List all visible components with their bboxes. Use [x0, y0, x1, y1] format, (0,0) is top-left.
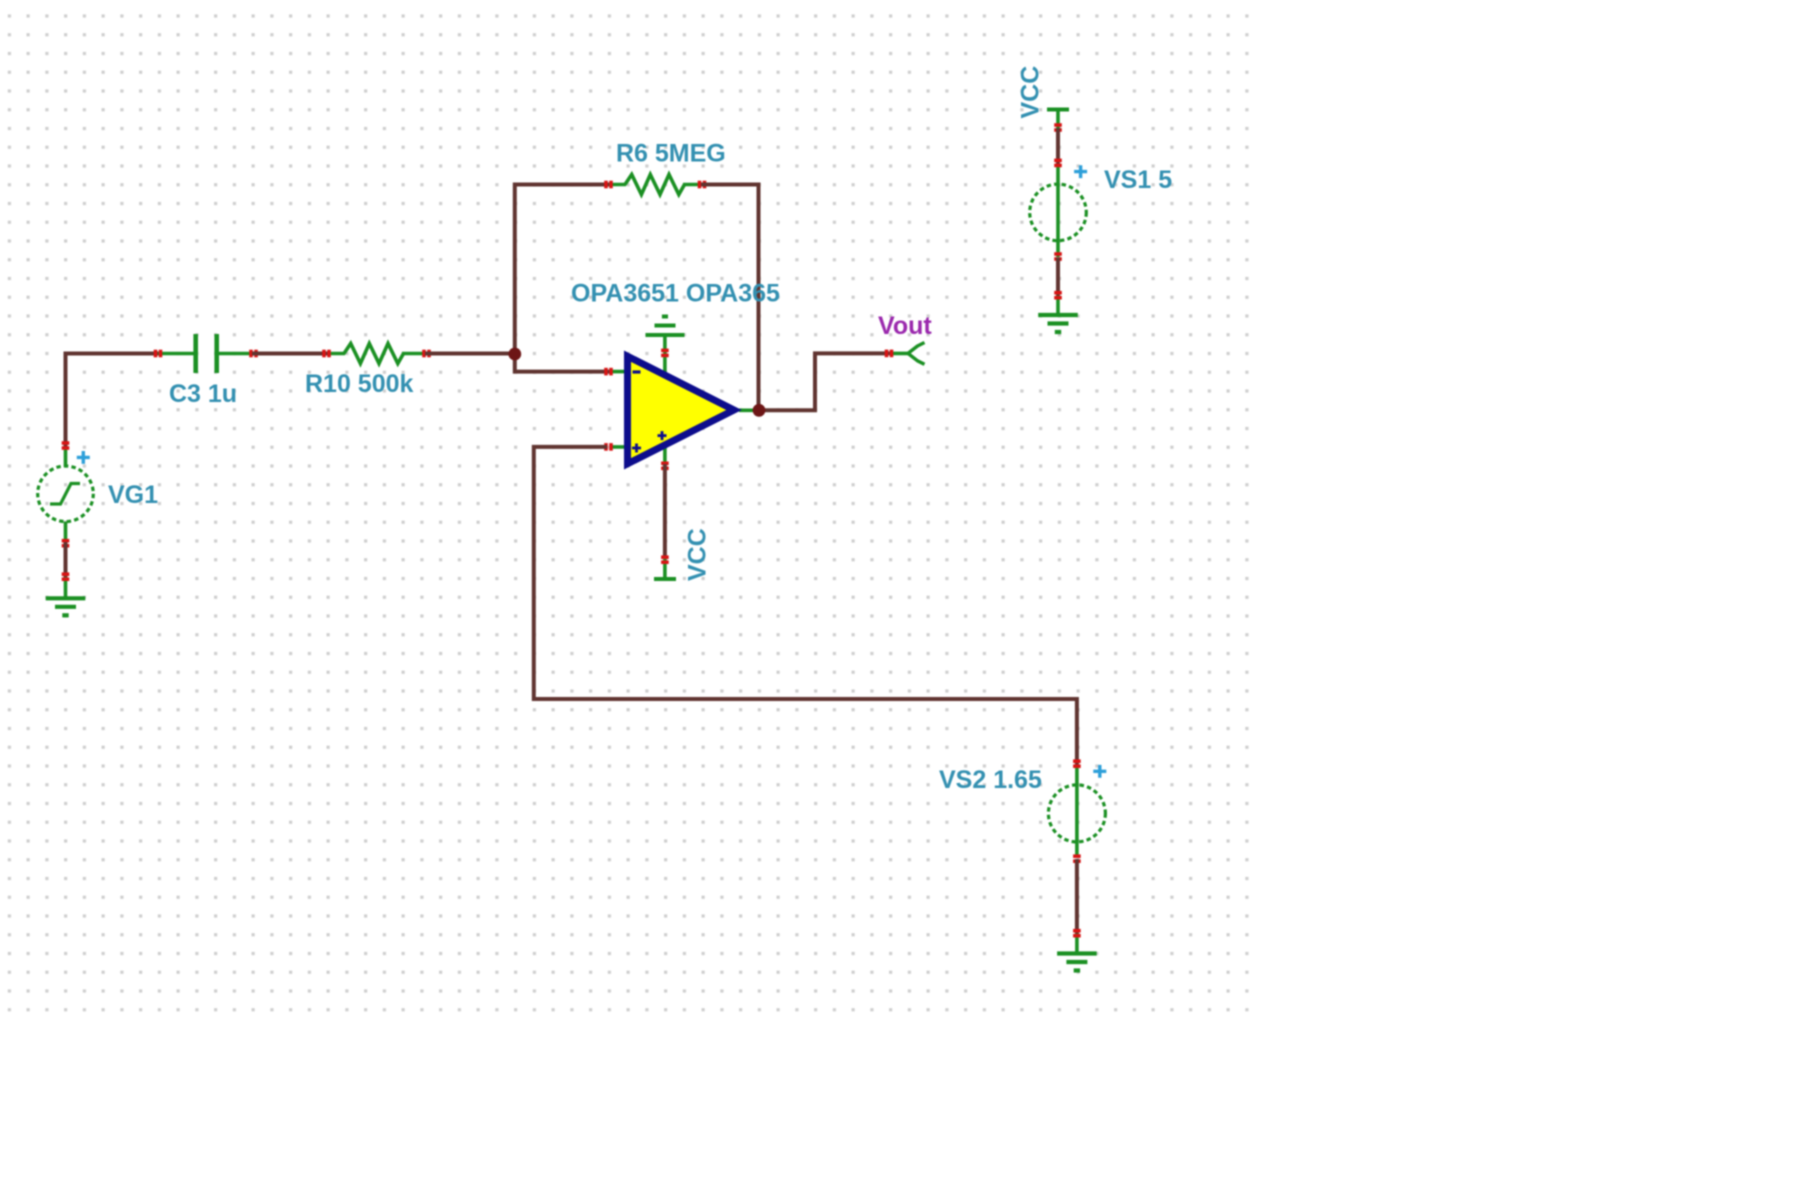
svg-text:VCC: VCC — [1017, 66, 1045, 119]
VCC terminal below op-amp — [654, 555, 676, 579]
wire VS1 bottom to ground — [1056, 258, 1060, 297]
voltage source VS2 — [1048, 759, 1106, 863]
label VS2 1.65 — [939, 766, 1042, 794]
label OPA3651 OPA365 — [571, 280, 780, 308]
svg-text:R10 500k: R10 500k — [305, 370, 414, 398]
voltage source VS1 — [1030, 159, 1087, 261]
node B junction at op-amp output — [753, 404, 766, 417]
label R10 500k — [305, 370, 414, 398]
label VS1 5 — [1104, 166, 1172, 194]
ground above op-amp — [646, 317, 685, 358]
capacitor C3 — [154, 334, 258, 373]
svg-text:R6 5MEG: R6 5MEG — [616, 140, 726, 168]
svg-text:VS2 1.65: VS2 1.65 — [939, 766, 1042, 794]
label VCC (below op-amp, rotated) — [684, 528, 712, 581]
svg-text:VG1: VG1 — [108, 481, 158, 509]
wire op-amp VCC pin down — [663, 464, 667, 558]
wire VS2 bottom to ground — [1075, 859, 1079, 935]
label Vout — [878, 312, 932, 340]
svg-text:VS1 5: VS1 5 — [1104, 166, 1172, 194]
op-amp U1 OPA365 — [604, 336, 757, 470]
label VG1 — [108, 481, 158, 509]
ground below VS2 — [1057, 929, 1097, 971]
wire output node to Vout — [757, 353, 890, 410]
svg-text:OPA3651 OPA365: OPA3651 OPA365 — [571, 280, 780, 308]
svg-text:Vout: Vout — [878, 312, 932, 340]
resistor R6 — [604, 175, 706, 195]
wire VG1 bottom to ground — [64, 542, 68, 578]
wire non-inverting input to VS2 — [534, 447, 1077, 766]
label VCC (top right, rotated) — [1017, 66, 1045, 119]
wire C3 right to R10 left — [252, 352, 328, 356]
VCC terminal top right — [1047, 110, 1069, 132]
ground below VS1 — [1038, 291, 1078, 332]
svg-text:VCC: VCC — [684, 528, 712, 581]
ground below VG1 — [46, 572, 86, 615]
node A junction — [508, 348, 521, 361]
wire R10 right to node A — [425, 352, 516, 356]
wire VCC to VS1 top — [1056, 128, 1060, 165]
terminal Vout — [885, 343, 925, 365]
wire node A to inverting input — [515, 354, 610, 372]
voltage generator VG1 — [38, 441, 94, 547]
wire R6 right to op-amp output — [701, 185, 759, 411]
wire node A up to R6 left — [515, 185, 610, 356]
wire VG1 top to C3 left — [66, 354, 161, 448]
label C3 1u — [169, 380, 237, 408]
label R6 5MEG — [616, 140, 726, 168]
svg-text:C3 1u: C3 1u — [169, 380, 237, 408]
resistor R10 — [322, 344, 431, 364]
